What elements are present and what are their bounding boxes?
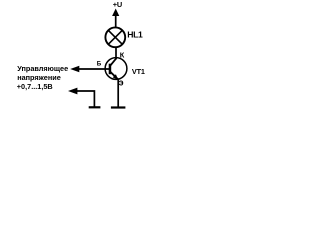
svg-text:+0,7...1,5В: +0,7...1,5В (17, 82, 53, 91)
svg-text:+U: +U (113, 0, 122, 9)
label control voltage (17, 64, 68, 91)
ground bar (emitter) (111, 106, 126, 108)
ground bar (control return) (89, 106, 101, 108)
svg-text:Управляющее: Управляющее (17, 64, 68, 73)
lamp HL1 (105, 27, 125, 47)
svg-text:напряжение: напряжение (17, 73, 61, 82)
wire lamp to collector (115, 47, 117, 59)
svg-text:HL1: HL1 (127, 29, 143, 39)
svg-text:э: э (119, 77, 124, 87)
arrow control return (68, 88, 77, 95)
wire to +U with up arrow (112, 9, 119, 29)
wire control return (74, 91, 94, 107)
svg-text:VT1: VT1 (132, 67, 145, 76)
wire emitter (117, 79, 119, 107)
wire base input (76, 68, 109, 70)
transistor VT1 (105, 58, 127, 80)
svg-text:Б: Б (97, 60, 102, 67)
arrow base input (70, 66, 79, 73)
